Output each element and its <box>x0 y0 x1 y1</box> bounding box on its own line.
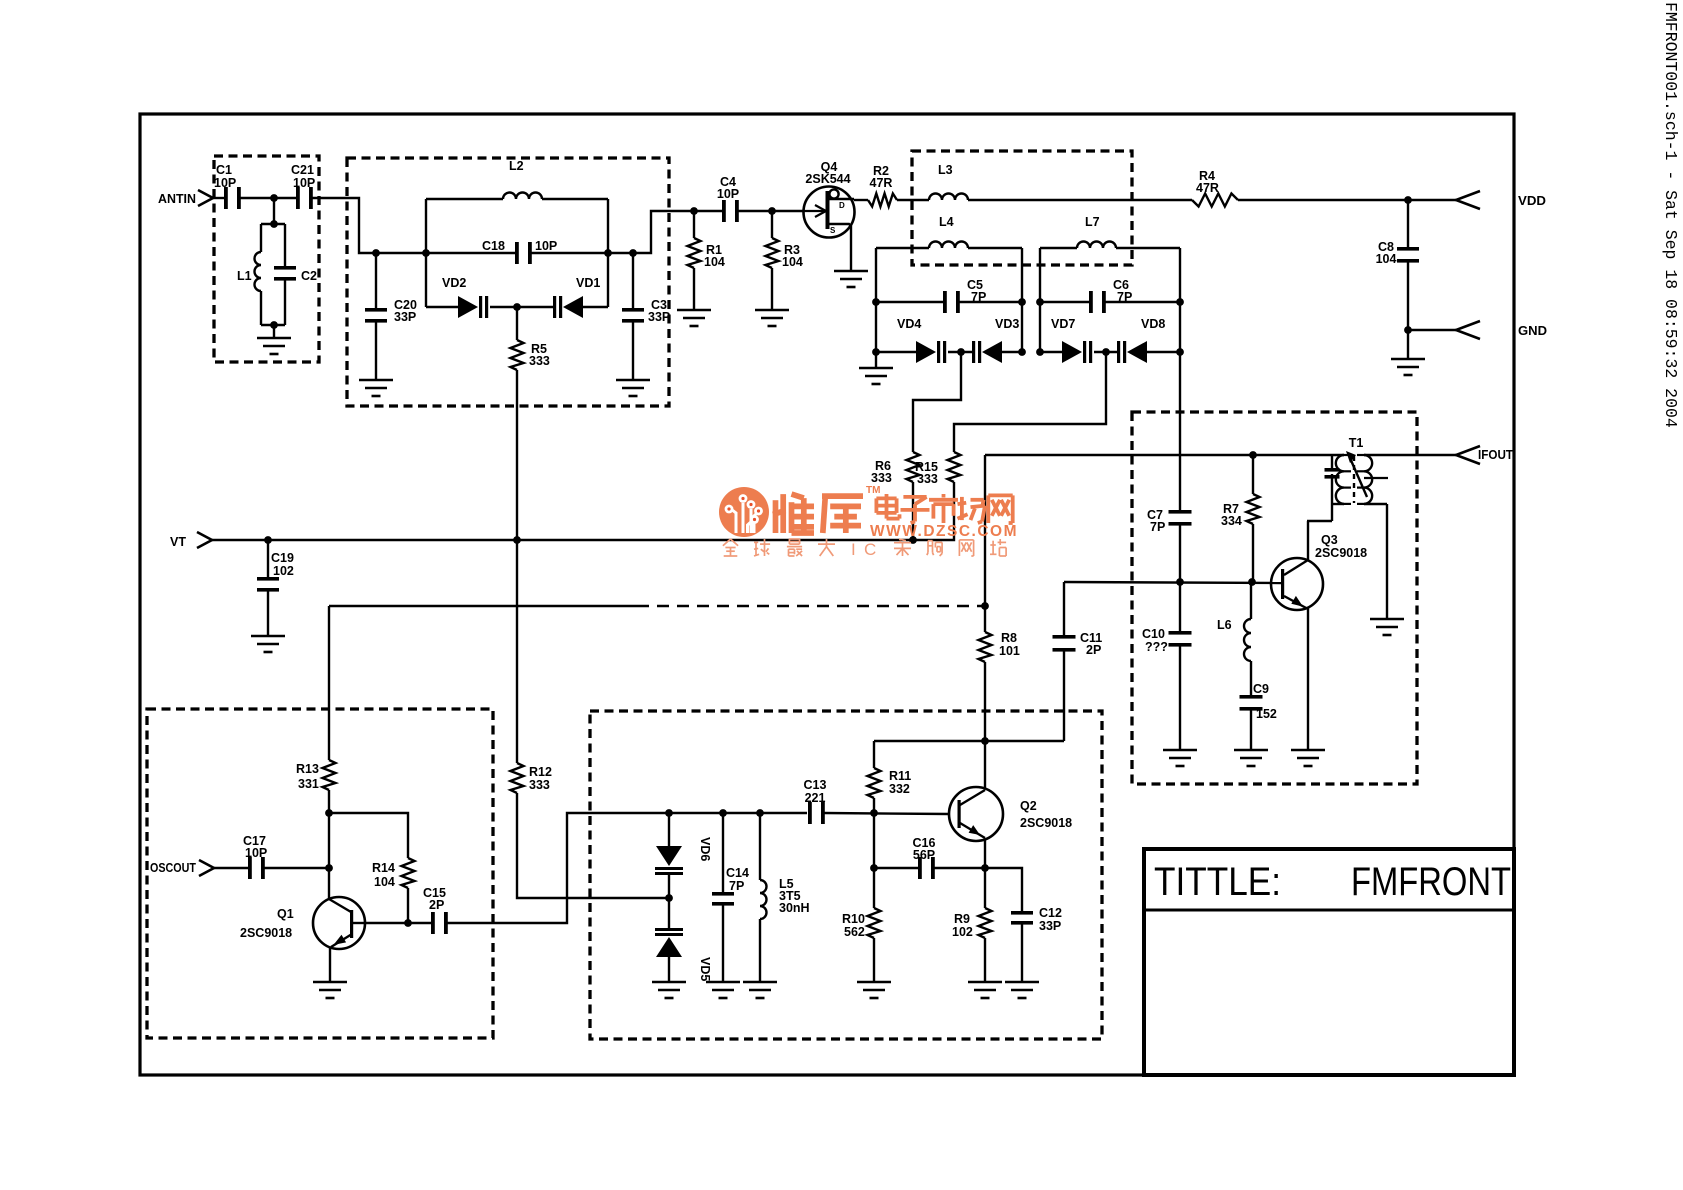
port ANTIN <box>158 190 213 206</box>
svg-text:ANTIN: ANTIN <box>158 192 196 206</box>
svg-text:OSCOUT: OSCOUT <box>150 861 196 875</box>
svg-text:VD8: VD8 <box>1141 317 1165 331</box>
inductor L6 <box>1217 582 1251 695</box>
wire Q1 collector <box>365 922 431 924</box>
svg-text:7P: 7P <box>1150 520 1165 534</box>
transformer T1 <box>1307 436 1388 619</box>
wire VD4 to VD3 <box>948 351 972 353</box>
resistor R5 <box>511 307 550 370</box>
svg-text:L7: L7 <box>1085 215 1100 229</box>
wire tank stem <box>261 198 285 224</box>
wire VD7 to VD8 <box>1094 351 1117 353</box>
ground Q3 emitter <box>1291 750 1325 766</box>
svg-text:R14: R14 <box>372 861 395 875</box>
inductor L7 <box>1040 215 1180 248</box>
svg-text:152: 152 <box>1256 707 1277 721</box>
capacitor C6 <box>1040 278 1180 313</box>
node VD5 VD6 junction <box>665 894 673 902</box>
wire C21 to L2 box <box>312 198 515 253</box>
ground VD5 <box>652 982 686 998</box>
node C6 right <box>1176 298 1184 306</box>
capacitor C21 <box>291 163 315 209</box>
ground C10 <box>1163 750 1197 766</box>
node C15 left <box>404 919 412 927</box>
varactor VD7 <box>1040 317 1092 363</box>
L3 dashed box <box>912 151 1132 265</box>
svg-text:C21: C21 <box>291 163 314 177</box>
wire C16 line <box>874 867 918 869</box>
svg-text:R12: R12 <box>529 765 552 779</box>
svg-text:101: 101 <box>999 644 1020 658</box>
svg-text:VD7: VD7 <box>1051 317 1075 331</box>
svg-text:2SC9018: 2SC9018 <box>240 926 292 940</box>
svg-text:2P: 2P <box>429 898 444 912</box>
svg-text:VD1: VD1 <box>576 276 600 290</box>
varactor VD4 <box>876 317 946 363</box>
svg-text:30nH: 30nH <box>779 901 810 915</box>
resistor R7 <box>1221 455 1260 582</box>
capacitor C11 <box>1053 582 1103 741</box>
wire R5 to VT line <box>516 370 518 763</box>
node GND junction <box>1404 326 1412 334</box>
svg-text:33P: 33P <box>394 310 416 324</box>
svg-text:Q2: Q2 <box>1020 799 1037 813</box>
ground C3 <box>616 380 650 396</box>
node C7 C10 junction <box>1176 578 1184 586</box>
svg-text:104: 104 <box>1376 252 1397 266</box>
svg-text:C18: C18 <box>482 239 505 253</box>
node C3 top <box>629 249 637 257</box>
wire C5 tank right vertical <box>1021 248 1023 352</box>
L2 dashed box <box>347 158 669 406</box>
wire Q3 collector <box>1307 521 1309 560</box>
svg-text:S: S <box>830 226 836 235</box>
node R10 top <box>870 864 878 872</box>
svg-text:Q1: Q1 <box>277 907 294 921</box>
inductor L4 <box>876 215 1022 248</box>
node VD8 right <box>1176 348 1184 356</box>
node VT R5 <box>513 536 521 544</box>
diode VD6 <box>655 813 683 875</box>
capacitor C9 <box>1240 682 1277 750</box>
title block <box>1144 849 1514 1075</box>
svg-text:102: 102 <box>273 564 294 578</box>
svg-text:47R: 47R <box>870 176 893 190</box>
resistor R10 <box>842 868 881 982</box>
wire R4 to VDD <box>1238 199 1456 201</box>
wire R13 to R14 <box>329 813 408 858</box>
Q3 dashed box <box>1132 412 1417 784</box>
resistor R13 <box>296 606 336 899</box>
port VDD <box>1456 191 1546 209</box>
svg-text:C10: C10 <box>1142 627 1165 641</box>
node R3 top <box>768 207 776 215</box>
capacitor C7 <box>1147 508 1192 534</box>
node VD7 left <box>1036 348 1044 356</box>
wire collector link <box>874 740 1064 742</box>
ground R9 <box>968 982 1002 998</box>
node R13 bottom <box>325 809 333 817</box>
svg-text:10P: 10P <box>293 176 315 190</box>
transistor Q2 <box>949 787 1072 841</box>
transistor Q3 <box>1271 533 1367 610</box>
inductor L5 <box>760 813 810 982</box>
wire R8 to collector node <box>984 662 986 788</box>
wire dashed segment <box>637 605 985 607</box>
wire R11 to C16 <box>873 813 875 868</box>
svg-text:VD6: VD6 <box>698 837 712 861</box>
node VD4 VD3 center <box>957 348 965 356</box>
svg-text:R8: R8 <box>1001 631 1017 645</box>
wire C15 to Q2 base <box>447 813 807 923</box>
inductor L2 <box>426 193 608 200</box>
wire VT line <box>212 539 913 541</box>
wire IFOUT line <box>985 454 1344 456</box>
svg-text:L1: L1 <box>237 269 252 283</box>
node R7 bottom <box>1248 578 1256 586</box>
node collector junction <box>981 737 989 745</box>
node C5 left <box>872 298 880 306</box>
Q2 dashed box <box>590 711 1102 1039</box>
svg-text:D: D <box>839 201 845 210</box>
ground Q1 emitter <box>313 982 347 998</box>
wire C5 tank left vertical <box>875 248 877 368</box>
node VT C19 <box>264 536 272 544</box>
ground C8 <box>1391 359 1425 375</box>
svg-text:VD2: VD2 <box>442 276 466 290</box>
capacitor C18 <box>482 239 557 264</box>
capacitor C15 <box>423 886 448 934</box>
svg-text:10P: 10P <box>245 846 267 860</box>
svg-text:VDD: VDD <box>1518 194 1546 208</box>
ground C14 <box>706 982 740 998</box>
node antenna junction <box>270 194 278 202</box>
resistor R11 <box>868 741 912 813</box>
wire VDD rail <box>968 199 1192 201</box>
svg-text:TM: TM <box>866 485 880 496</box>
wire C4 to Q4 gate <box>738 210 804 212</box>
svg-text:7P: 7P <box>971 290 986 304</box>
svg-text:104: 104 <box>704 255 725 269</box>
wire IF line vertical <box>984 455 986 632</box>
svg-text:R10: R10 <box>842 912 865 926</box>
svg-text:47R: 47R <box>1196 181 1219 195</box>
wire tank bottom <box>261 325 285 338</box>
svg-text:IFOUT: IFOUT <box>1478 448 1513 462</box>
svg-text:334: 334 <box>1221 514 1242 528</box>
wire IFOUT out <box>1364 454 1456 456</box>
node C8 top <box>1404 196 1412 204</box>
capacitor C1 <box>214 163 241 209</box>
resistor R8 <box>979 631 1020 662</box>
svg-text:Q3: Q3 <box>1321 533 1338 547</box>
wire VD2 to VD1 <box>490 306 553 308</box>
resistor R4 <box>1192 169 1238 207</box>
wire R15 bottom <box>913 482 954 540</box>
svg-text:FMFRONT001.sch-1 - Sat Sep 18: FMFRONT001.sch-1 - Sat Sep 18 08:59:32 2… <box>1661 2 1680 428</box>
capacitor C5 <box>876 278 1022 313</box>
resistor R1 <box>688 211 725 310</box>
wire VD6 to junction <box>668 874 670 928</box>
svg-text:2SK544: 2SK544 <box>805 172 850 186</box>
wire Q3 emitter <box>1307 608 1309 750</box>
wire varactor center to R15 <box>954 352 1106 452</box>
wire C6 tank right vertical <box>1179 248 1181 510</box>
node L2 right <box>604 249 612 257</box>
wire C18 right to C4 <box>531 211 722 253</box>
svg-text:R11: R11 <box>889 769 911 783</box>
node VD7 VD8 center <box>1102 348 1110 356</box>
wire C1 to C21 <box>240 197 296 199</box>
port IFOUT <box>1456 446 1513 464</box>
ground R10 <box>857 982 891 998</box>
port GND <box>1456 321 1547 339</box>
svg-text:VT: VT <box>170 535 186 549</box>
node emitter C16 <box>981 864 989 872</box>
node tank top <box>270 220 278 228</box>
capacitor C12 <box>1011 906 1062 982</box>
svg-text:GND: GND <box>1518 324 1547 338</box>
resistor R15 <box>915 452 961 486</box>
wire varactor center to R6 <box>913 352 961 452</box>
svg-text:C9: C9 <box>1253 682 1269 696</box>
node C14 top <box>719 809 727 817</box>
resistor R6 <box>871 452 920 485</box>
node VD3 right <box>1018 348 1026 356</box>
ground R3 <box>755 310 789 326</box>
wire C13 to Q2 base <box>824 813 949 814</box>
watermark logo <box>719 487 769 537</box>
svg-text:VD5: VD5 <box>698 957 712 981</box>
wire C7 to C10 <box>1179 522 1181 631</box>
antenna dashed box <box>214 156 319 362</box>
svg-text:10P: 10P <box>535 239 557 253</box>
wire L2 right vertical <box>607 199 609 307</box>
svg-text:333: 333 <box>529 778 550 792</box>
node Q1 base <box>325 864 333 872</box>
svg-text:333: 333 <box>917 472 938 486</box>
svg-text:2SC9018: 2SC9018 <box>1315 546 1367 560</box>
node R1 top <box>690 207 698 215</box>
ground R1 <box>677 310 711 326</box>
ground T1 secondary <box>1370 619 1404 635</box>
svg-text:C19: C19 <box>271 551 294 565</box>
svg-text:C2: C2 <box>301 269 317 283</box>
Q1 dashed box <box>147 709 493 1038</box>
svg-text:102: 102 <box>952 925 973 939</box>
capacitor C8 <box>1376 200 1419 359</box>
svg-text:C13: C13 <box>804 778 827 792</box>
wire Q2 emitter <box>984 839 986 908</box>
ground C19 <box>251 636 285 652</box>
svg-text:331: 331 <box>298 777 319 791</box>
wire R6 to VT node <box>912 482 914 540</box>
svg-text:33P: 33P <box>1039 919 1061 933</box>
capacitor C20 <box>365 253 417 380</box>
wire ANTIN to C1 <box>213 197 224 199</box>
port VT <box>170 532 212 549</box>
resistor R3 <box>766 211 803 310</box>
capacitor C19 <box>257 540 294 636</box>
svg-text:R9: R9 <box>954 912 970 926</box>
ground Q4 source <box>834 271 868 287</box>
svg-text:C1: C1 <box>216 163 232 177</box>
svg-text:104: 104 <box>374 875 395 889</box>
node VD4 left <box>872 348 880 356</box>
svg-text:333: 333 <box>871 471 892 485</box>
capacitor C14 <box>712 813 749 982</box>
wire R13 top line <box>329 605 637 607</box>
ground L5 <box>743 982 777 998</box>
inductor L1 <box>237 224 261 325</box>
svg-text:C14: C14 <box>726 866 749 880</box>
svg-text:2P: 2P <box>1086 643 1101 657</box>
node tank bottom <box>270 321 278 329</box>
svg-text:221: 221 <box>805 791 826 805</box>
svg-text:L2: L2 <box>509 159 524 173</box>
svg-text:104: 104 <box>782 255 803 269</box>
svg-text:333: 333 <box>529 354 550 368</box>
wire L2 left vertical <box>425 199 427 307</box>
capacitor C16 <box>913 836 936 879</box>
capacitor C10 <box>1142 627 1192 750</box>
node L2 left <box>422 249 430 257</box>
varactor VD3 <box>972 317 1022 363</box>
node varactor center <box>513 303 521 311</box>
varactor VD1 <box>553 276 608 318</box>
varactor VD8 <box>1117 317 1180 363</box>
ground C12 <box>1005 982 1039 998</box>
node C20 top <box>372 249 380 257</box>
svg-text:T1: T1 <box>1349 436 1364 450</box>
svg-text:???: ??? <box>1145 640 1168 654</box>
watermark slogan text <box>723 539 1006 559</box>
svg-text:332: 332 <box>889 782 910 796</box>
watermark brand text <box>773 494 1013 533</box>
ground C20 <box>359 380 393 396</box>
svg-text:10P: 10P <box>717 187 739 201</box>
capacitor C13 <box>804 778 827 824</box>
svg-text:FMFRONT: FMFRONT <box>1351 860 1511 904</box>
svg-text:C12: C12 <box>1039 906 1062 920</box>
resistor R2 <box>854 164 897 207</box>
svg-text:VD4: VD4 <box>897 317 921 331</box>
svg-text:WWW.DZSC.COM: WWW.DZSC.COM <box>870 523 1018 540</box>
capacitor C4 <box>717 175 739 222</box>
node C5 right <box>1018 298 1026 306</box>
svg-text:VD3: VD3 <box>995 317 1019 331</box>
node L5 top <box>756 809 764 817</box>
ground C5 tank <box>859 368 893 384</box>
resistor R14 <box>372 858 415 923</box>
svg-text:56P: 56P <box>913 848 935 862</box>
transistor Q4 <box>804 160 855 271</box>
wire R12 link <box>511 763 670 898</box>
node R7 top <box>1249 451 1257 459</box>
wire Q3 base line <box>1064 582 1281 583</box>
node C6 left <box>1036 298 1044 306</box>
svg-text:562: 562 <box>844 925 865 939</box>
diode VD5 <box>655 928 683 982</box>
svg-text:TITTLE:: TITTLE: <box>1154 860 1281 904</box>
capacitor C2 <box>274 224 317 325</box>
svg-text:10P: 10P <box>214 176 236 190</box>
svg-text:2SC9018: 2SC9018 <box>1020 816 1072 830</box>
node VT R6 <box>909 536 917 544</box>
svg-text:L3: L3 <box>938 163 953 177</box>
svg-text:R13: R13 <box>296 762 319 776</box>
wire C6 tank left vertical <box>1039 248 1041 352</box>
svg-text:C: C <box>864 540 876 559</box>
ground antenna tank <box>257 338 291 354</box>
node VD6 top <box>665 809 673 817</box>
transistor Q1 <box>240 897 365 949</box>
capacitor C17 <box>214 834 329 879</box>
port OSCOUT <box>150 860 214 876</box>
varactor VD2 <box>426 276 488 318</box>
svg-text:7P: 7P <box>729 879 744 893</box>
svg-text:I: I <box>851 540 856 559</box>
svg-text:7P: 7P <box>1117 290 1132 304</box>
svg-text:L6: L6 <box>1217 618 1232 632</box>
svg-text:L4: L4 <box>939 215 954 229</box>
node R11 bottom <box>870 809 878 817</box>
wire GND stub <box>1408 329 1456 331</box>
inductor L3 <box>897 163 968 200</box>
wire Q1 emitter <box>329 948 331 982</box>
capacitor C3 <box>622 253 670 380</box>
svg-text:33P: 33P <box>648 310 670 324</box>
wire C16 to C12 <box>934 868 1022 911</box>
resistor R9 <box>952 908 992 982</box>
node R8 top <box>981 602 989 610</box>
ground C9 <box>1234 750 1268 766</box>
